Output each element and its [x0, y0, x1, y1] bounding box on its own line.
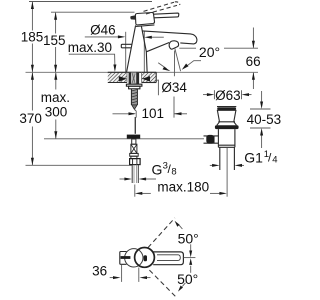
lever inner slot (top view): [157, 255, 180, 261]
counter band hatched left segment: [108, 72, 127, 82]
G1 1/4 arrows: [210, 164, 244, 167]
stud tip: [132, 105, 138, 110]
Ø34 black arrow left (inside counter): [119, 76, 127, 81]
drain upper body: [217, 110, 236, 122]
ref line top of raised lever (185): [29, 1, 152, 3]
svg-text:36: 36: [92, 264, 107, 279]
svg-text:370: 370: [19, 111, 42, 126]
G3/8 threaded pipe: [132, 165, 138, 183]
supply centerline tick (max.180 left): [134, 185, 136, 197]
svg-text:185: 185: [21, 30, 44, 45]
check valve bold bar: [127, 135, 140, 139]
supply pipe upper (thin): [134, 110, 136, 111]
counter band hatched right segment: [142, 72, 157, 82]
Ø34 label with bracket line: [156, 80, 158, 95]
dimension max.300 vertical line below counter: [54, 72, 57, 139]
dimension 370 vertical line below counter: [31, 72, 34, 165]
Ø46 extension line right: [143, 31, 145, 72]
svg-text:4: 4: [272, 155, 277, 166]
40-53 upper ref line: [250, 108, 271, 110]
aerator centerline extension (101 right tick): [173, 51, 175, 77]
svg-text:G: G: [152, 161, 163, 177]
ref line 370 bottom: [26, 164, 132, 166]
dashed line lever swung up 50deg: [148, 218, 175, 248]
handle cap bottom lip line: [136, 25, 155, 27]
threaded stud: [131, 89, 137, 105]
drain tailpipe: [220, 147, 235, 170]
angle arrow left: [158, 63, 170, 71]
Ø46 extension line left: [125, 32, 127, 72]
svg-text:50°: 50°: [177, 271, 198, 287]
faucet body (tapered): [127, 25, 148, 72]
drain cap underline: [217, 109, 237, 111]
faucet raised lever dashed outline: [144, 2, 180, 14]
drain pop-up cap top line: [217, 106, 236, 108]
lever slot pin (dark): [144, 255, 147, 261]
svg-text:40-53: 40-53: [247, 112, 282, 127]
mounting washer below counter: [126, 84, 141, 86]
40-53 arrows: [260, 91, 263, 148]
drain centerline: [226, 148, 228, 197]
dimension max.180: [135, 192, 227, 195]
66 extension line from spout (carries 20 deg label): [179, 47, 196, 49]
valve flange: [130, 153, 139, 156]
valve connector: [132, 139, 136, 144]
dimension 66 vertical: [252, 28, 255, 90]
drain lower body: [218, 129, 235, 147]
hole right wall: [141, 72, 143, 82]
40-53 lower ref line: [250, 127, 271, 129]
svg-text:8: 8: [171, 166, 176, 177]
svg-text:300: 300: [45, 105, 68, 120]
faucet lever bar: [154, 13, 179, 18]
counter right end edge: [155, 72, 157, 82]
lever front tip wedge (left of cap): [130, 15, 135, 20]
spout: [142, 31, 197, 44]
svg-text:Ø63: Ø63: [215, 88, 241, 103]
lower 50 deg arc arrow: [178, 283, 185, 292]
ref line top of handle cap (155): [51, 11, 135, 13]
dimension 155 vertical line: [54, 12, 57, 72]
counter bottom edge: [108, 82, 127, 84]
mounting nut: [129, 86, 140, 89]
pop-up rod knob (dark): [206, 135, 214, 144]
Ø34 black arrow right (inside counter): [142, 76, 150, 81]
svg-text:66: 66: [246, 54, 261, 69]
angle arrow right (leader from 20 deg label): [182, 61, 201, 70]
water stream line 20 deg: [175, 49, 181, 72]
label G1 1/4: [244, 149, 277, 166]
label G 3/8: [152, 160, 177, 177]
drain body shoulder lines: [218, 145, 235, 147]
counter top surface line full width: [26, 71, 259, 73]
svg-text:max.30: max.30: [68, 40, 112, 55]
aerator on spout: [169, 41, 178, 49]
svg-text:Ø46: Ø46: [90, 22, 116, 37]
non-return valve box with cross: [131, 144, 137, 153]
svg-text:max.: max.: [41, 90, 70, 105]
spout stub dark bar: [121, 256, 131, 259]
Ø63 arrows and ticks: [203, 90, 252, 99]
svg-text:101: 101: [142, 106, 165, 121]
svg-text:Ø34: Ø34: [161, 80, 187, 95]
counter top edge over hatch block: [108, 71, 156, 73]
pop-up rod housing: [204, 136, 219, 143]
drain pop-up cap dark bar: [217, 107, 236, 110]
threaded shank in counter hole: [129, 73, 140, 85]
dimension 36: [110, 265, 151, 282]
svg-text:20°: 20°: [199, 44, 220, 60]
supply pipe between 101 and valve: [134, 117, 136, 134]
ref line max.300 bottom / pop-up rod to drain: [44, 138, 204, 140]
G3/8 nut: [130, 159, 141, 165]
drain seal dark band: [215, 125, 239, 129]
body circle (top view): [125, 249, 143, 267]
G3/8 arrows: [120, 178, 157, 181]
lever bar (top view): [153, 252, 183, 265]
hole left wall: [126, 72, 128, 82]
spout underside: [146, 43, 169, 52]
svg-text:G1: G1: [244, 150, 263, 166]
valve neck: [131, 156, 137, 158]
dimension 101 horizontal: [113, 111, 188, 118]
drain flare ring: [217, 122, 237, 126]
lever centerline extension: [184, 257, 196, 259]
svg-text:50°: 50°: [178, 230, 199, 246]
spout stub (top view): [120, 252, 127, 265]
Ø46 right arrow: [144, 36, 164, 39]
svg-text:max.180: max.180: [157, 180, 209, 195]
faucet handle cap: [135, 12, 154, 24]
dashed line lever swung down 50deg: [149, 270, 176, 297]
angle arrows at centerline: [189, 244, 192, 272]
svg-text:155: 155: [43, 33, 66, 48]
small tab on body left: [121, 44, 131, 48]
dimension 185 vertical line: [31, 2, 34, 73]
upper 50 deg arc arrow: [175, 221, 183, 229]
handle boss circle (top view, heavier): [135, 248, 155, 268]
